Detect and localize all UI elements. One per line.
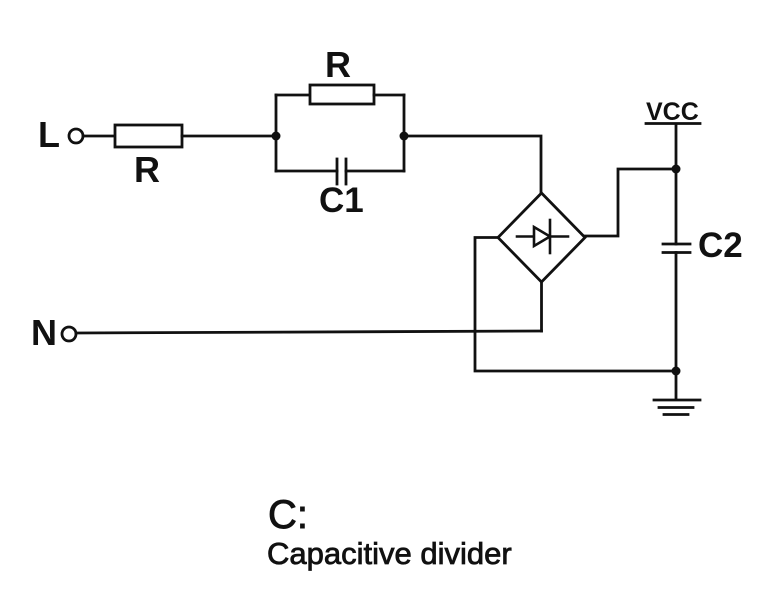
wire top left to R2 xyxy=(276,94,310,97)
wire C2 down to ground xyxy=(675,253,678,400)
svg-text:C:: C: xyxy=(268,493,308,537)
wire VCC rail down to C2 xyxy=(675,125,678,244)
ground xyxy=(654,400,700,415)
capacitor C2 xyxy=(663,226,743,265)
wire left vertical of RC pair xyxy=(275,95,278,171)
wire right vertical of RC pair xyxy=(403,95,406,171)
wire L to R1 xyxy=(83,135,115,138)
svg-text:R: R xyxy=(134,149,160,190)
junction dot VCC rail xyxy=(672,165,681,174)
capacitor C1 xyxy=(319,159,364,220)
wire bridge right corner to VCC rail xyxy=(585,169,676,236)
svg-text:C1: C1 xyxy=(319,181,364,220)
wire R1 to node A xyxy=(182,135,276,138)
wire bottom left to C1 xyxy=(276,170,337,173)
node A junction dot xyxy=(272,132,281,141)
node N xyxy=(31,312,76,353)
junction dot bottom rail xyxy=(672,367,681,376)
resistor R2 xyxy=(310,44,374,104)
wire N to bridge bottom corner xyxy=(76,331,542,333)
wire node B to bridge top corner xyxy=(404,136,541,193)
wire C1 to bottom right xyxy=(346,170,404,173)
node L xyxy=(38,114,83,155)
svg-text:N: N xyxy=(31,312,57,353)
svg-text:C2: C2 xyxy=(698,226,743,265)
svg-text:Capacitive divider: Capacitive divider xyxy=(267,536,512,571)
svg-text:VCC: VCC xyxy=(646,98,699,126)
bridge rectifier D1 xyxy=(498,193,585,282)
node B junction dot xyxy=(400,132,409,141)
wire bridge bottom corner down xyxy=(540,282,543,331)
resistor R1 xyxy=(115,125,182,190)
node VCC xyxy=(646,98,700,126)
wire bridge left corner down and to ground rail xyxy=(475,238,676,372)
svg-text:L: L xyxy=(38,114,60,155)
wire R2 to top right xyxy=(374,94,404,97)
svg-text:R: R xyxy=(325,44,351,85)
